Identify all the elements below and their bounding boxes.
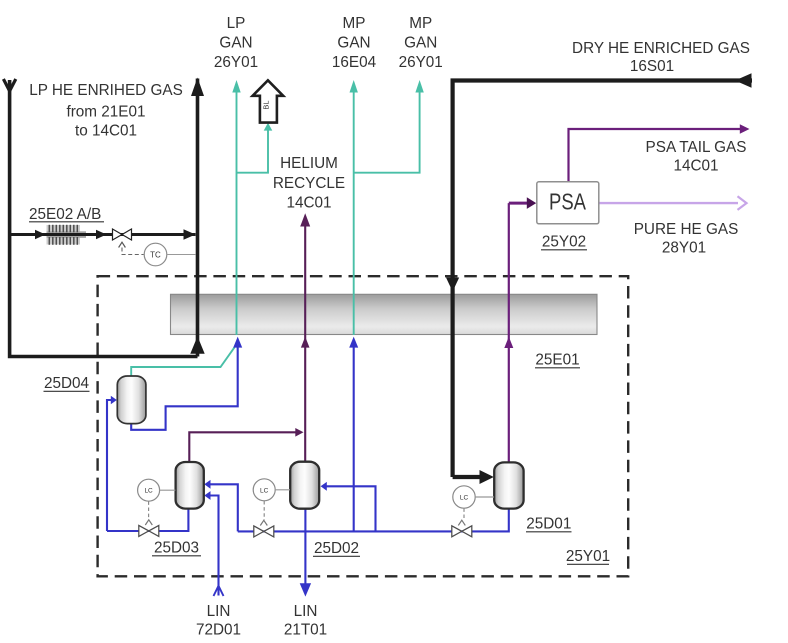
wire dashed LC2 signal [263, 501, 265, 520]
tag 25Y01 [566, 548, 610, 565]
label LIN 21T01 [284, 603, 327, 639]
svg-text:RECYCLE: RECYCLE [273, 175, 345, 192]
svg-text:14C01: 14C01 [673, 158, 718, 175]
valve LCV 25D02 [254, 520, 274, 537]
wire blue branch into 25D02 nozzle [326, 486, 376, 531]
svg-text:25D02: 25D02 [314, 540, 359, 557]
svg-text:from 21E01: from 21E01 [66, 104, 145, 121]
wire teal branch MP GAN 26Y01 [354, 84, 420, 173]
svg-text:LC: LC [460, 495, 469, 502]
svg-text:26Y01: 26Y01 [399, 54, 443, 71]
valve LCV 25D01 [452, 520, 472, 537]
svg-text:14C01: 14C01 [286, 195, 331, 212]
label DRY HE ENRICHED GAS 16S01 [572, 40, 750, 75]
label MP GAN 16E04 [332, 15, 377, 71]
arrow black up into 25E01 bottom [190, 336, 204, 354]
svg-text:LP: LP [227, 15, 246, 32]
svg-text:16E04: 16E04 [332, 54, 377, 71]
wire purple 25D01 vapor to PSA [508, 203, 510, 463]
arrow blue left into 25D03 lower nozzle [204, 491, 210, 500]
label LP HE enriched gas [29, 82, 183, 140]
wire black 25E02 branch line [10, 233, 196, 236]
arrow teal up MP GAN 26Y01 [415, 80, 423, 93]
label PURE HE GAS 28Y01 [634, 221, 739, 257]
wire blue LIN 72D01 [210, 496, 219, 596]
arrow blue open up LIN 72D01 [214, 586, 224, 596]
wire blue 25D04 bottom loop [131, 347, 238, 430]
wire lavender pure HE gas [599, 202, 738, 204]
wire black dry HE enriched gas path [453, 81, 752, 478]
wire dashed TC signal [122, 248, 144, 255]
wire blue MP riser below 25E01 [353, 348, 355, 532]
PSA unit 25Y02 box [537, 182, 599, 224]
svg-text:25D04: 25D04 [44, 375, 90, 392]
wire dashed LC1 signal [148, 501, 150, 519]
svg-text:28Y01: 28Y01 [662, 240, 706, 257]
wire blue manifold A to 25D03 bottom [107, 509, 188, 531]
wire black riser to 14C01 [196, 79, 200, 357]
instrument LC3 [453, 486, 494, 508]
vent to atmosphere symbol BL [253, 80, 284, 122]
wire purple feed into PSA [509, 202, 528, 205]
arrow blue left into 25D02 nozzle [321, 482, 327, 491]
svg-text:LIN: LIN [294, 603, 318, 620]
svg-text:TC: TC [150, 251, 161, 260]
exchanger 25E02 A/B hatched block [47, 225, 89, 245]
tag 25E02 A/B [29, 206, 104, 223]
heat exchanger 25E01 [171, 294, 598, 334]
tag 25D04 [44, 375, 90, 392]
svg-text:MP: MP [343, 15, 366, 32]
svg-text:25D01: 25D01 [526, 516, 571, 533]
wire teal MP GAN riser [353, 84, 355, 335]
arrow purple up into 25E01 (recycle riser) [301, 337, 310, 348]
svg-text:LC: LC [260, 487, 269, 494]
svg-text:DRY HE ENRICHED GAS: DRY HE ENRICHED GAS [572, 40, 750, 57]
svg-text:HELIUM: HELIUM [280, 155, 338, 172]
wire purple helium recycle riser [304, 227, 306, 462]
tag 25D02 [313, 540, 360, 557]
wire teal 25D04 vapor jog [131, 347, 234, 376]
svg-text:21T01: 21T01 [284, 622, 327, 639]
arrow blue down LIN 21T01 [300, 583, 311, 596]
arrow purple right into PSA [527, 197, 536, 209]
instrument TC [144, 243, 196, 266]
arrow black up at top of riser [191, 78, 204, 97]
svg-text:26Y01: 26Y01 [214, 54, 258, 71]
wire blue LIN 21T01 [304, 509, 306, 584]
wire purple 25D03 vapor branch [189, 432, 296, 462]
wire blue riser into 25D03 upper nozzle [210, 484, 238, 531]
instrument LC1 [138, 479, 176, 501]
arrow teal up MP GAN 16E04 [350, 80, 358, 93]
svg-text:25Y01: 25Y01 [566, 548, 610, 565]
arrow black down into 25E01 top [446, 278, 459, 292]
svg-text:25E01: 25E01 [535, 352, 579, 369]
label HELIUM RECYCLE 14C01 [273, 155, 345, 212]
arrow purple up helium recycle [300, 213, 310, 226]
arrow black left at right end of dry gas line [735, 73, 752, 88]
svg-text:LC: LC [144, 488, 153, 495]
arrow blue right into 25D04 [111, 396, 117, 405]
wire black into 25D01 [453, 475, 480, 479]
arrow purple right PSA tail gas [740, 124, 750, 133]
tag 25E01 [535, 352, 580, 369]
vessel 25D04 [117, 376, 146, 424]
instrument LC2 [253, 479, 290, 501]
svg-text:16S01: 16S01 [630, 58, 674, 75]
svg-text:LP HE ENRIHED GAS: LP HE ENRIHED GAS [29, 82, 183, 99]
vessel 25D02 [290, 462, 319, 509]
wire blue manifold B [238, 509, 509, 532]
svg-text:PURE HE GAS: PURE HE GAS [634, 221, 739, 238]
svg-text:GAN: GAN [404, 35, 437, 52]
label LIN 72D01 [196, 603, 241, 639]
svg-text:MP: MP [409, 15, 432, 32]
svg-text:PSA TAIL GAS: PSA TAIL GAS [646, 139, 747, 156]
label PSA TAIL GAS 14C01 [646, 139, 747, 175]
wire teal branch to vent [237, 131, 269, 173]
arrow black right into 25D01 [480, 470, 494, 484]
arrow lavender open right pure HE gas [738, 196, 747, 210]
arrow purple right joining recycle riser [295, 428, 303, 437]
tag 25D01 [526, 516, 572, 533]
svg-text:25D03: 25D03 [154, 540, 199, 557]
svg-text:25Y02: 25Y02 [542, 234, 586, 251]
vessel 25D01 [494, 462, 523, 508]
svg-text:GAN: GAN [337, 35, 370, 52]
arrow purple up into 25E01 (PSA riser) [504, 337, 513, 348]
svg-text:LIN: LIN [207, 603, 231, 620]
svg-text:72D01: 72D01 [196, 622, 241, 639]
arrow blue up into 25E01 (MP riser) [349, 337, 358, 348]
wire teal LP GAN riser [236, 84, 238, 335]
svg-text:PSA: PSA [549, 189, 587, 215]
svg-text:to 14C01: to 14C01 [75, 123, 137, 140]
svg-text:25E02 A/B: 25E02 A/B [29, 206, 101, 223]
wire black LP HE enriched gas feed (left vertical + bottom horizontal) [10, 80, 198, 357]
arrow blue left into 25D03 upper nozzle [204, 480, 210, 489]
valve TCV on 25E02 branch [113, 229, 132, 248]
vessel 25D03 [176, 462, 204, 509]
cold box 25Y01 boundary [98, 276, 629, 576]
svg-text:GAN: GAN [219, 35, 252, 52]
valve LCV 25D03 [139, 520, 159, 537]
arrow on 25E02 branch 1 [35, 230, 46, 240]
wire purple PSA tail gas [569, 129, 741, 182]
arrow on 25E02 branch 3 [184, 229, 196, 240]
arrow on 25E02 branch 2 [96, 230, 107, 240]
wire dashed LC3 signal [463, 508, 465, 519]
arrow blue up into 25E01 (25D04 loop) [233, 337, 242, 348]
label LP GAN 26Y01 [214, 15, 258, 71]
wire blue 25D04 inlet [107, 400, 111, 531]
svg-text:BL: BL [262, 100, 271, 109]
arrow teal up into vent [264, 123, 273, 131]
label MP GAN 26Y01 [399, 15, 443, 71]
arrow open down at top of left feed line [3, 79, 15, 91]
tag 25Y02 [541, 234, 587, 251]
tag 25D03 [152, 540, 201, 557]
arrow teal up LP GAN [232, 80, 240, 93]
